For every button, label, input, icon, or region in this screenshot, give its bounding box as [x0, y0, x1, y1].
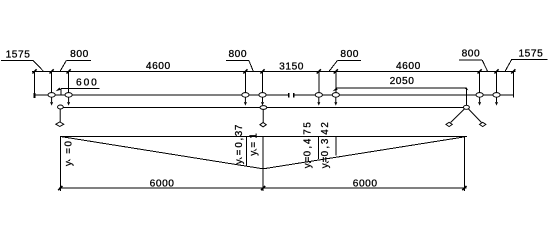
svg-text:4600: 4600 [146, 61, 171, 72]
svg-text:y=1: y=1 [249, 133, 260, 156]
svg-text:6000: 6000 [353, 179, 378, 190]
svg-text:600: 600 [76, 78, 99, 89]
svg-text:4600: 4600 [396, 61, 421, 72]
svg-text:y=0: y=0 [64, 140, 75, 166]
svg-text:2050: 2050 [390, 76, 415, 87]
svg-text:6000: 6000 [150, 179, 175, 190]
svg-text:800: 800 [340, 49, 359, 60]
svg-text:800: 800 [228, 49, 247, 60]
svg-text:800: 800 [70, 49, 89, 60]
svg-text:1575: 1575 [518, 48, 543, 59]
svg-text:3150: 3150 [279, 62, 304, 73]
svg-text:800: 800 [462, 49, 481, 60]
svg-text:1575: 1575 [6, 49, 31, 60]
